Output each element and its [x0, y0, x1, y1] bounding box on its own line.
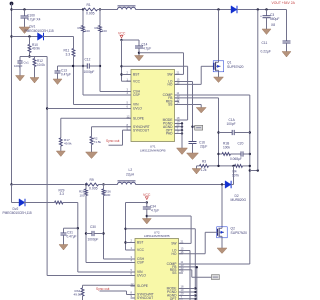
wire C31 stem	[63, 228, 65, 233]
wire C11 bottom	[286, 43, 288, 52]
label R11 value	[66, 53, 71, 57]
svg-text:R5: R5	[78, 26, 82, 30]
ground under Q2	[217, 248, 227, 254]
ground under C13	[53, 79, 62, 85]
label R4	[233, 170, 237, 174]
wire L1 to D1	[136, 9, 232, 11]
label R5	[78, 26, 82, 30]
wire COMP net	[175, 94, 250, 96]
capacitor C13 0.47uF	[55, 71, 61, 73]
label R1B	[223, 142, 229, 146]
junction VCC wire y66	[120, 65, 122, 67]
label C3	[270, 13, 274, 17]
svg-text:100: 100	[80, 193, 85, 197]
wire C12 right seg	[89, 65, 100, 67]
label R12	[37, 59, 43, 63]
wire VIN filter column	[47, 57, 135, 276]
junction C31 node	[77, 227, 79, 229]
svg-text:100: 100	[105, 193, 110, 197]
wire C30 right seg	[94, 233, 104, 235]
label L2 value	[126, 173, 135, 177]
label C3 value	[270, 17, 279, 21]
wire C1A branch b	[234, 132, 250, 134]
label R34 value	[74, 293, 82, 297]
svg-text:PAD: PAD	[166, 132, 173, 136]
wire R25 column top	[85, 185, 87, 190]
svg-text:PMEG6010CEH,115: PMEG6010CEH,115	[3, 211, 32, 215]
tag box OPT	[195, 125, 203, 130]
wire OPT2 stub	[179, 298, 196, 300]
svg-text:MUR820G: MUR820G	[231, 198, 247, 202]
label C30	[90, 225, 96, 229]
wire C100 bottom	[24, 18, 26, 27]
transistor Q1 SUP57N20	[213, 59, 224, 73]
junction VOUT C3	[265, 8, 267, 10]
svg-text:100k: 100k	[223, 146, 230, 150]
junction C30 right	[102, 232, 104, 234]
junction comp right vout tap	[249, 169, 251, 171]
junction R9 left	[85, 183, 87, 185]
junction Q2 drain tap	[221, 183, 223, 185]
resistor R4 107k	[235, 165, 243, 168]
label R11	[64, 49, 70, 53]
wire FB2 net	[179, 267, 197, 300]
svg-text:100pF: 100pF	[14, 64, 23, 68]
wire R2 bottom	[91, 145, 93, 153]
svg-text:49.9k: 49.9k	[64, 142, 72, 146]
junction left rail / top rail	[10, 8, 12, 10]
junction UVLO wire tap	[46, 107, 48, 109]
ground under C3	[262, 29, 271, 35]
label C20	[238, 142, 244, 146]
junction PGND2	[194, 291, 196, 293]
label R6 value	[102, 29, 107, 33]
wire C32 bottom	[146, 209, 148, 219]
label C3 qty	[271, 23, 275, 27]
ground near C32	[142, 219, 151, 225]
wire R11 column to VIN pin	[74, 57, 132, 105]
label R5 value	[85, 29, 90, 33]
svg-text:BST: BST	[133, 73, 139, 77]
capacitor C32 4.7uF	[143, 207, 151, 209]
junction SW node / Q1 drain	[217, 8, 219, 10]
label Q1	[227, 61, 232, 65]
svg-text:560µF: 560µF	[270, 17, 279, 21]
wire SLOPE2 net	[83, 285, 136, 288]
label R9	[90, 178, 94, 182]
op-amp U1 LM5122 controller	[127, 70, 180, 153]
wire R29 to C31 node	[63, 203, 135, 273]
svg-text:R3: R3	[202, 160, 206, 164]
junction AGND	[181, 126, 183, 128]
label R2 value	[94, 140, 102, 144]
wire VOUT column	[257, 10, 259, 171]
resistor R2 71.5k sync	[90, 137, 93, 145]
svg-text:VOUT +54V 2A: VOUT +54V 2A	[272, 1, 296, 5]
junction fb row right	[249, 165, 251, 167]
wire R12 stem	[34, 57, 36, 59]
junction comp RC right	[249, 153, 251, 155]
svg-text:10.0k: 10.0k	[37, 63, 45, 67]
node VIN input terminal	[10, 2, 14, 6]
wire comp to vout	[250, 170, 258, 172]
wire PGND stub	[175, 123, 183, 125]
wire VCC2 to mode2	[126, 229, 196, 289]
svg-text:R6: R6	[95, 26, 99, 30]
wire R10 bottom	[29, 53, 31, 57]
label D2 part	[231, 198, 247, 202]
junction OPT	[181, 129, 183, 131]
junction fb node	[217, 165, 219, 167]
junction VOUT column	[257, 8, 259, 10]
junction BST2 tap	[124, 241, 126, 243]
ground under R12	[30, 78, 39, 84]
wire C1A branch	[219, 132, 233, 134]
label VCC2 net	[143, 193, 151, 197]
label sync out net	[106, 139, 119, 143]
label C31	[67, 231, 73, 235]
wire Cv1 bottom	[19, 63, 21, 76]
label C100 value	[27, 18, 41, 22]
svg-text:CSP: CSP	[137, 261, 145, 265]
wire BST stub	[122, 74, 132, 76]
svg-text:0.005: 0.005	[86, 12, 95, 16]
label R10	[32, 43, 38, 47]
ground under C11	[282, 52, 291, 58]
svg-text:100pF: 100pF	[227, 122, 236, 126]
label C13	[61, 69, 67, 73]
capacitor C1A 100pF	[232, 130, 234, 135]
wire MODE stub	[175, 119, 188, 121]
wire gnd pins column	[181, 124, 183, 149]
wire comp column	[218, 98, 220, 166]
wire C32 stem	[146, 203, 148, 208]
wire SW2 stub	[179, 242, 192, 244]
wire R9 to L2	[99, 184, 118, 186]
svg-text:3.3: 3.3	[66, 53, 71, 57]
svg-text:Dv1: Dv1	[30, 25, 36, 29]
svg-text:22µF: 22µF	[200, 145, 207, 149]
ground SS pin	[196, 108, 206, 114]
resistor R10 49.9k	[28, 45, 31, 53]
label R3 value	[201, 168, 207, 172]
svg-text:R1: R1	[87, 3, 91, 7]
wire C16 bottom	[192, 144, 194, 154]
wire L2 to D2	[136, 184, 226, 186]
ground under Q1	[214, 77, 224, 83]
junction BST tap	[120, 73, 122, 75]
wire VCC stub	[122, 80, 132, 82]
svg-text:1.2k: 1.2k	[201, 168, 207, 172]
wire fb row a	[197, 165, 200, 167]
wire R12 bottom	[34, 67, 36, 78]
svg-text:1000pF: 1000pF	[88, 238, 99, 242]
label R4 value	[232, 174, 239, 178]
label R29 value	[60, 192, 65, 196]
wire MODE2 stub	[179, 288, 196, 290]
svg-text:71.5k: 71.5k	[94, 140, 102, 144]
svg-text:HO: HO	[172, 252, 177, 256]
wire R34 bottom	[82, 296, 84, 300]
svg-text:SYNCOUT: SYNCOUT	[133, 128, 149, 132]
junction C100 top rail	[23, 8, 25, 10]
svg-text:LM5122MH/NOPB: LM5122MH/NOPB	[144, 234, 170, 238]
label C11	[262, 41, 268, 45]
svg-text:C12: C12	[85, 58, 91, 62]
wire C13 stem	[57, 66, 59, 71]
svg-text:VCC: VCC	[137, 248, 145, 252]
wire R10 top	[29, 37, 31, 45]
wire comp RC a	[219, 153, 223, 155]
net VCC2 port arrow	[145, 197, 148, 200]
ground under C100	[19, 27, 30, 34]
wire VCC2 column	[125, 203, 127, 251]
junction R9 right	[102, 183, 104, 185]
label C16	[199, 141, 205, 145]
capacitor C31 0.47uF	[61, 233, 67, 235]
label VOUT net	[272, 1, 296, 5]
svg-text:22µH: 22µH	[126, 173, 135, 177]
resistor R25 100	[85, 189, 88, 196]
junction vout tap	[257, 169, 259, 171]
wire SYNCIN2 net	[100, 291, 136, 295]
capacitor C12 1000pF	[87, 63, 89, 68]
label R10 value	[32, 47, 40, 51]
label D2	[235, 194, 239, 198]
ground under C31	[59, 245, 68, 251]
svg-text:0.47µF: 0.47µF	[67, 235, 77, 239]
label R9 value	[89, 187, 98, 191]
label Dv2	[13, 207, 19, 211]
wire R6 column top	[99, 10, 101, 26]
svg-text:HO: HO	[168, 83, 173, 87]
svg-text:SW: SW	[167, 73, 173, 77]
svg-text:L2: L2	[129, 168, 133, 172]
wire VCC1 column	[121, 40, 123, 81]
label C31 value	[67, 235, 77, 239]
label R3	[202, 160, 206, 164]
capacitor C11 0.22uF	[283, 41, 291, 43]
label C1A	[229, 118, 236, 122]
wire boot2 to SW2	[147, 216, 191, 243]
svg-text:Q1: Q1	[227, 61, 232, 65]
wire PAD stub	[175, 133, 183, 135]
wire C7 bottom	[138, 48, 140, 56]
resistor R26 100	[102, 189, 105, 196]
diode Dv2	[19, 199, 25, 207]
capacitor C100 4.7uF	[21, 16, 29, 18]
wire SYNCIN net	[92, 127, 132, 137]
inductor L1	[118, 6, 136, 10]
label Dv1	[30, 25, 36, 29]
svg-text:49.9k: 49.9k	[74, 293, 82, 297]
svg-text:SYNCOUT: SYNCOUT	[137, 296, 153, 300]
resistor R5 100	[82, 26, 85, 33]
label sync2 net	[96, 287, 109, 291]
label R26 value	[105, 193, 110, 197]
label C1A value	[227, 122, 236, 126]
ground under Cv1	[16, 76, 25, 82]
ground under R2	[86, 152, 98, 159]
wire tag stub	[193, 126, 197, 128]
label C20 value	[230, 157, 242, 161]
capacitor C7 boot 4.7uF	[135, 46, 143, 48]
svg-text:UVLO: UVLO	[137, 274, 146, 278]
svg-text:C30: C30	[90, 225, 96, 229]
wire Dv2 to R29	[24, 202, 55, 204]
transistor Q2 SUP57N20	[217, 225, 228, 239]
ground FB divider	[192, 169, 201, 175]
svg-text:C11: C11	[262, 41, 268, 45]
svg-text:0.22µF: 0.22µF	[261, 50, 271, 54]
label C12 value	[84, 70, 95, 74]
wire D1 to VOUT rail	[237, 9, 287, 11]
label C11 value	[261, 50, 271, 54]
label C13 value	[61, 73, 71, 77]
wire R25 column bottom	[86, 196, 135, 263]
wire VCC2 stub	[126, 249, 136, 251]
wire BST2 stub	[126, 242, 136, 244]
svg-text:0.47µF: 0.47µF	[61, 73, 71, 77]
junction VCC1 node	[120, 39, 122, 41]
wire comp right column	[249, 95, 251, 264]
wire C31 bottom	[63, 235, 65, 245]
svg-text:49.9k: 49.9k	[32, 47, 40, 51]
wire rail to Dv1	[12, 36, 38, 38]
ground under R17	[56, 151, 65, 157]
svg-text:VCC: VCC	[118, 32, 126, 36]
junction C32 bottom	[146, 215, 148, 217]
wire rail2	[12, 184, 85, 186]
label R34	[75, 289, 81, 293]
wire Dv1 to R11 corner	[43, 37, 74, 49]
wire SW riser	[175, 73, 184, 75]
wire SYNCOUT hook	[109, 130, 132, 145]
resistor R12	[33, 59, 36, 67]
svg-text:SUP57N20: SUP57N20	[227, 65, 244, 69]
resistor R1 0.005 sense	[84, 8, 98, 11]
wire UVLO pin	[47, 108, 131, 110]
junction VCC2 node	[146, 201, 148, 203]
svg-text:Cv1: Cv1	[24, 61, 30, 65]
svg-text:UVLO: UVLO	[133, 107, 142, 111]
svg-text:SUP57N20: SUP57N20	[231, 231, 248, 235]
wire fb divider gnd stem	[196, 166, 198, 169]
wire D2 cathode riser	[231, 166, 234, 185]
label Q2	[231, 227, 236, 231]
wire SLOPE net	[61, 118, 131, 138]
junction R10 top	[28, 35, 30, 37]
label R26	[105, 190, 111, 194]
svg-text:Q2: Q2	[231, 227, 236, 231]
svg-text:1000pF: 1000pF	[84, 70, 95, 74]
junction C12 left	[82, 65, 84, 67]
svg-text:BST: BST	[137, 241, 143, 245]
capacitor C3 560uF	[263, 16, 271, 18]
junction VCC2 y228	[124, 228, 126, 230]
capacitor C16 22uF	[189, 142, 197, 144]
wire C13 bottom	[57, 73, 59, 79]
resistor R6 100	[99, 26, 102, 33]
label C3 plus	[260, 15, 262, 19]
tag box RES2	[211, 275, 219, 280]
svg-text:SLOPE: SLOPE	[133, 116, 145, 120]
label Cv1	[24, 61, 30, 65]
op-amp U2 LM5122 controller	[131, 231, 184, 300]
wire boot to SW column	[139, 53, 184, 75]
wire comp RC c	[243, 153, 250, 155]
capacitor C30 1000pF	[92, 231, 94, 236]
wire OPT stub	[175, 129, 183, 131]
wire C30 left seg	[86, 233, 92, 235]
wire C31 branch	[64, 227, 78, 229]
junction OPT2	[194, 298, 196, 300]
label R1B value	[223, 146, 230, 150]
resistor R11 3.3	[72, 49, 75, 57]
label R1	[87, 3, 91, 7]
junction C12 right	[99, 65, 101, 67]
junction R1 right	[99, 8, 101, 10]
resistor R17 49.9k slope	[59, 138, 62, 146]
junction R10 filter node	[28, 55, 30, 57]
wire HO to Q1 gate	[175, 66, 215, 84]
svg-text:VCC: VCC	[133, 79, 141, 83]
wire R26 column top	[103, 185, 105, 190]
resistor R34 49.9k slope	[81, 288, 84, 296]
svg-text:100: 100	[102, 29, 107, 33]
svg-text:Sync=out: Sync=out	[106, 139, 119, 143]
wire R5 column mid	[83, 32, 131, 95]
junction C30 left	[85, 232, 87, 234]
wire VCC to mode column	[122, 66, 188, 120]
ground near C7	[135, 56, 144, 62]
wire C11 top	[286, 10, 288, 42]
wire SS to ground	[175, 105, 202, 108]
label C100	[27, 14, 35, 18]
wire comp RC b	[231, 153, 242, 155]
net VCC1 port arrow	[120, 35, 123, 38]
label Q1 part	[227, 65, 244, 69]
svg-text:SLOPE: SLOPE	[137, 284, 149, 288]
wire R6 column mid	[100, 32, 131, 92]
wire RES2 to tag	[179, 270, 212, 277]
wire C3 bottom	[266, 18, 268, 29]
junction C7 bottom SW net	[138, 52, 140, 54]
resistor R1B 100k	[222, 153, 231, 156]
wire C100 top	[24, 10, 26, 17]
wire rail to Dv2	[12, 185, 20, 203]
label C32 value	[151, 209, 159, 213]
junction C1A left	[217, 131, 219, 133]
label R12 value	[37, 63, 45, 67]
label R1 value	[86, 12, 95, 16]
junction R1 left	[82, 8, 84, 10]
wire filter node	[20, 56, 47, 58]
wire COMP2 net	[179, 263, 250, 265]
label Dv2 part	[3, 211, 32, 215]
junction comp RC left	[217, 153, 219, 155]
wire Cv1 stem	[19, 57, 21, 62]
wire fb row c	[243, 165, 250, 167]
wire VCC1 node to C7	[122, 40, 140, 46]
label C7 value	[143, 46, 151, 50]
junction C1A right	[249, 131, 251, 133]
svg-text:+: +	[260, 15, 262, 19]
label Cv1 value	[14, 64, 23, 68]
junction MODE2	[194, 287, 196, 289]
label R25	[79, 190, 85, 194]
svg-text:CSP: CSP	[133, 93, 141, 97]
